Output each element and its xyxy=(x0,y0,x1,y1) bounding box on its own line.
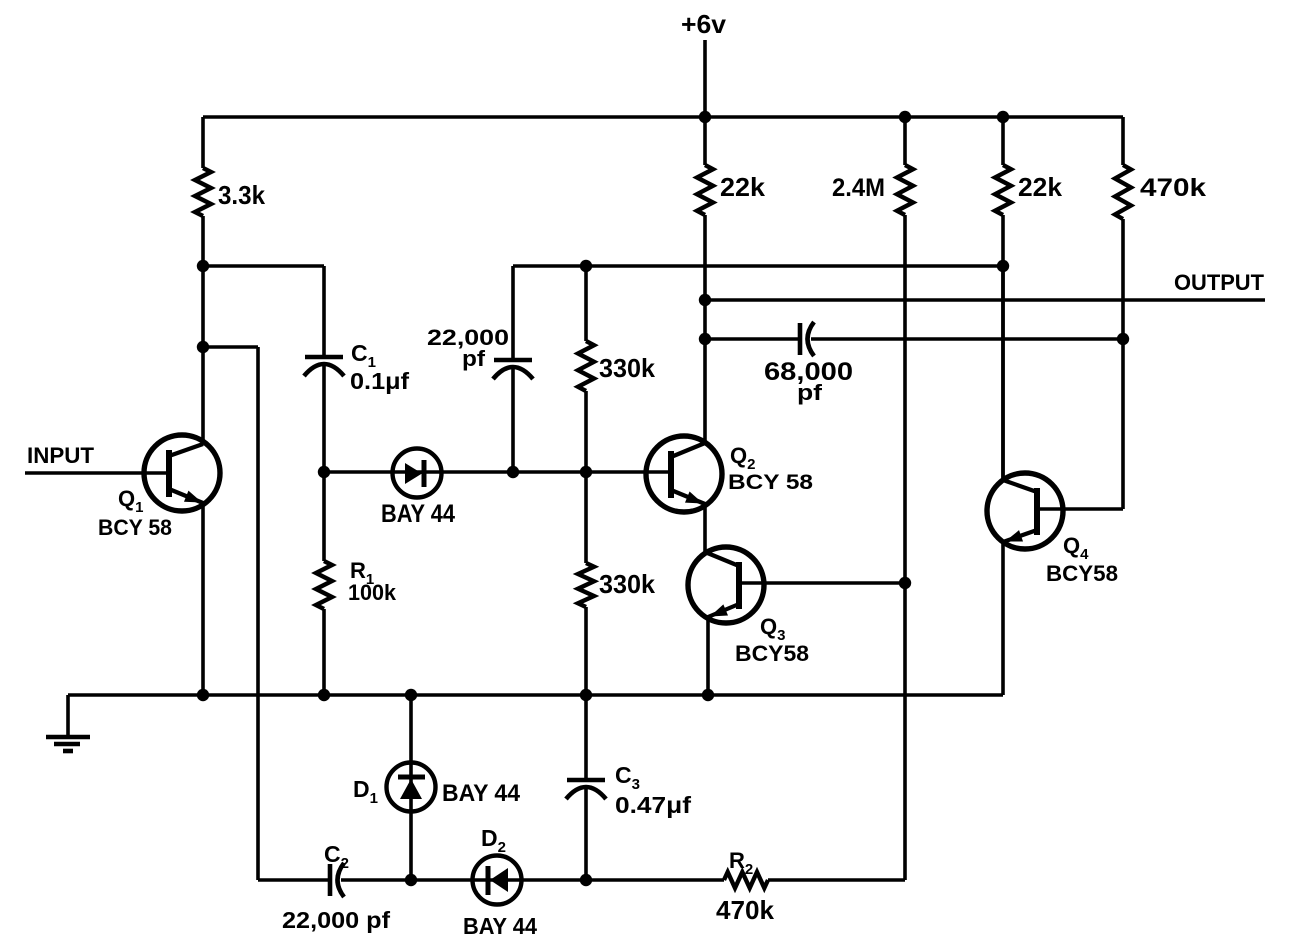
label OUTPUT xyxy=(1174,270,1265,295)
label C1 xyxy=(351,340,376,371)
node ground / R1 xyxy=(318,689,330,701)
label Q2 xyxy=(730,443,755,473)
ground xyxy=(46,695,90,751)
resistor 22k right xyxy=(995,117,1063,480)
svg-text:+6v: +6v xyxy=(681,9,727,39)
node top rail / +6v xyxy=(699,111,711,123)
svg-text:2.4M: 2.4M xyxy=(832,174,885,202)
svg-text:INPUT: INPUT xyxy=(27,443,95,468)
svg-text:BCY 58: BCY 58 xyxy=(728,471,813,494)
label C1 value xyxy=(350,368,409,394)
node Q1 collector stub xyxy=(197,341,209,353)
resistor 330k upper xyxy=(578,266,656,472)
transistor Q4 xyxy=(987,473,1063,549)
svg-text:330k: 330k xyxy=(599,353,656,383)
label D1 xyxy=(353,776,378,807)
svg-text:100k: 100k xyxy=(348,580,397,605)
resistor R1 100k xyxy=(316,472,332,695)
label C3 xyxy=(615,762,640,793)
wire OUTPUT row xyxy=(705,298,1265,302)
svg-text:BCY58: BCY58 xyxy=(1046,561,1118,586)
svg-text:BCY58: BCY58 xyxy=(735,641,809,666)
capacitor 68000pf xyxy=(705,322,1123,356)
diode D1 xyxy=(387,695,436,880)
label 68000pf xyxy=(764,358,853,386)
label 22000pf xyxy=(427,325,509,350)
wire Q4 emitter column xyxy=(1001,542,1005,695)
svg-text:22,000 pf: 22,000 pf xyxy=(282,907,390,933)
label 22000pf unit xyxy=(462,346,486,371)
INPUT label and wire xyxy=(25,443,169,473)
wire Q1 emitter column xyxy=(201,503,205,695)
+6V supply label and lead xyxy=(681,9,727,117)
svg-text:330k: 330k xyxy=(599,569,656,599)
wire Q1 collector column xyxy=(201,266,205,444)
node top rail / 22k right xyxy=(997,111,1009,123)
transistor Q2 xyxy=(646,436,722,512)
label C3 value xyxy=(615,792,691,818)
svg-text:470k: 470k xyxy=(1140,174,1206,202)
svg-text:BAY 44: BAY 44 xyxy=(442,780,521,807)
label D1 BAY44 xyxy=(442,780,521,807)
svg-text:0.47μf: 0.47μf xyxy=(615,792,691,818)
label 68000pf unit xyxy=(797,380,823,405)
resistor 2.4M xyxy=(832,117,913,583)
node C2 / D1 xyxy=(405,874,417,886)
svg-text:BCY 58: BCY 58 xyxy=(98,515,172,540)
wire Q3 emitter xyxy=(706,617,710,695)
label Q3 xyxy=(760,614,785,644)
label R1 xyxy=(350,558,374,588)
label Q4 xyxy=(1063,533,1089,563)
capacitor C1 xyxy=(304,266,344,472)
node ground / 330k xyxy=(580,689,592,701)
transistor Q1 xyxy=(144,435,220,511)
node C3 / R2 row xyxy=(580,874,592,886)
wire Q2 emitter to Q3 collector xyxy=(703,504,707,552)
label Q2 BCY58 xyxy=(728,471,813,494)
svg-text:3.3k: 3.3k xyxy=(218,180,265,210)
svg-text:BAY 44: BAY 44 xyxy=(381,500,455,528)
svg-text:22k: 22k xyxy=(720,172,766,202)
capacitor C3 xyxy=(566,695,606,880)
label R2 xyxy=(729,848,753,878)
node base row / C1-R1 xyxy=(318,466,330,478)
wire mid rail left xyxy=(203,264,324,268)
resistor 470k top xyxy=(1115,117,1206,339)
node base row / 330k xyxy=(580,466,592,478)
label BAY44 inline xyxy=(381,500,455,528)
wire Q4 collector column xyxy=(1001,266,1005,480)
resistor R2 470k xyxy=(586,872,905,888)
resistor 330k lower xyxy=(578,472,656,695)
label Q4 BCY58 xyxy=(1046,561,1118,586)
label R1 value xyxy=(348,580,397,605)
svg-text:pf: pf xyxy=(462,346,486,371)
label C2 value xyxy=(282,907,390,933)
label D2 xyxy=(481,825,506,856)
node ground / D1 xyxy=(405,689,417,701)
wire stub to C2 column xyxy=(203,347,258,880)
label C2 xyxy=(324,841,349,872)
wire 2.4M column lower xyxy=(903,583,907,880)
label Q1 BCY58 xyxy=(98,515,172,540)
label Q1 xyxy=(118,486,143,516)
node ground / Q3 emitter xyxy=(702,689,714,701)
node Q3 base / 2.4M xyxy=(899,577,911,589)
wire C2row through D2 to C3 column xyxy=(411,878,586,882)
svg-text:22k: 22k xyxy=(1018,172,1063,202)
node OUTPUT / Q2 collector xyxy=(699,294,711,306)
wire Q3 base xyxy=(739,581,905,585)
diode D2 xyxy=(473,856,522,905)
svg-text:0.1μf: 0.1μf xyxy=(350,368,409,394)
label Q3 BCY58 xyxy=(735,641,809,666)
diode BAY44 inline xyxy=(393,449,442,498)
label D2 BAY44 xyxy=(463,913,537,939)
wire mid rail right xyxy=(513,264,1003,268)
resistor 22k left xyxy=(697,117,766,443)
node top rail / 2.4M xyxy=(899,111,911,123)
transistor Q3 xyxy=(688,547,764,623)
node 68000pf right xyxy=(1117,333,1129,345)
capacitor 22000pf xyxy=(493,266,533,472)
svg-text:pf: pf xyxy=(797,380,823,405)
capacitor C2 xyxy=(258,863,411,897)
wire Q4 base xyxy=(1037,507,1123,511)
node 22000pf bottom xyxy=(507,466,519,478)
wire base row xyxy=(324,470,671,474)
node mid rail / 22k right xyxy=(997,260,1009,272)
resistor 3.3k xyxy=(195,117,265,266)
label R2 value xyxy=(716,895,775,925)
wire 470k column lower xyxy=(1121,339,1125,509)
wire top supply rail xyxy=(203,115,1123,119)
wire ground rail xyxy=(68,693,1003,697)
node ground / Q1 emitter xyxy=(197,689,209,701)
node 68000pf left xyxy=(699,333,711,345)
node 3.3k bottom xyxy=(197,260,209,272)
svg-text:BAY 44: BAY 44 xyxy=(463,913,537,939)
svg-text:OUTPUT: OUTPUT xyxy=(1174,270,1265,295)
svg-text:470k: 470k xyxy=(716,895,775,925)
node mid rail / 330k xyxy=(580,260,592,272)
